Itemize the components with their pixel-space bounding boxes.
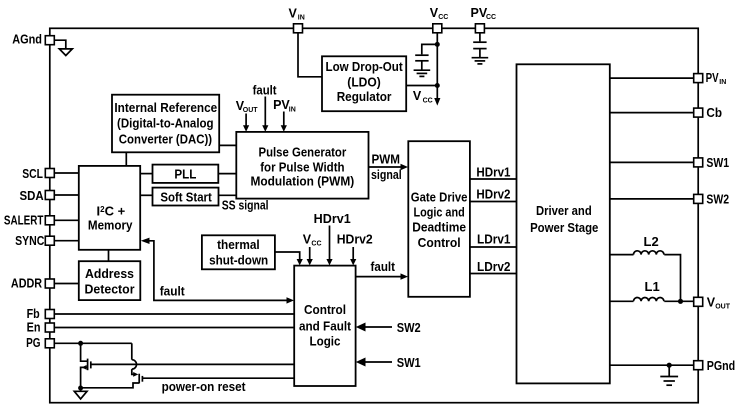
svg-text:IN: IN: [719, 79, 726, 86]
wire Driver to Cb pin: [610, 112, 694, 114]
pin En: [45, 323, 54, 332]
transistor Q2: [131, 343, 133, 359]
box internal reference DAC: [112, 95, 219, 153]
svg-text:Power Stage: Power Stage: [530, 220, 598, 235]
svg-text:Modulation (PWM): Modulation (PWM): [251, 174, 355, 189]
box PLL: [153, 165, 219, 183]
wire Q2 gate power-on reset to Control: [142, 377, 294, 379]
svg-text:V: V: [413, 89, 422, 103]
ground at PGnd: [668, 365, 670, 376]
node ground junction Q1: [78, 386, 83, 391]
wire I2C to Soft Start: [140, 194, 152, 196]
svg-text:signal: signal: [371, 168, 402, 182]
svg-text:IN: IN: [289, 106, 296, 113]
svg-text:CC: CC: [438, 14, 448, 21]
node PGnd ground junction: [667, 363, 672, 368]
box LDO regulator: [322, 56, 406, 111]
ground for PVcc capacitor: [472, 57, 489, 59]
arrow fault into Pulse Generator top: [264, 97, 266, 126]
arrow SW2 into Control right: [364, 326, 392, 328]
wire ADDR to Address Detector: [55, 283, 79, 285]
svg-text:SDA: SDA: [20, 189, 44, 203]
svg-text:power-on reset: power-on reset: [162, 380, 247, 394]
svg-text:PV: PV: [706, 71, 720, 85]
svg-text:fault: fault: [253, 83, 278, 97]
svg-text:Logic: Logic: [310, 333, 341, 348]
svg-text:Logic and: Logic and: [414, 205, 465, 220]
inductor L1: [610, 300, 634, 302]
wire I2C to PLL: [140, 173, 152, 175]
svg-text:L1: L1: [645, 279, 660, 294]
svg-text:Cb: Cb: [706, 106, 722, 120]
svg-text:Pulse Generator: Pulse Generator: [259, 145, 347, 160]
ground below Q1: [80, 388, 82, 391]
svg-text:Internal Reference: Internal Reference: [114, 100, 217, 115]
svg-text:Soft Start: Soft Start: [160, 189, 212, 204]
wire Q1 gate to Control: [91, 363, 294, 365]
svg-text:AGnd: AGnd: [12, 33, 42, 47]
svg-text:PWM: PWM: [372, 152, 401, 166]
wire fault Control to Gate Drive: [356, 276, 402, 278]
wire DAC to Pulse Generator: [219, 144, 236, 146]
wire SDA to I2C: [55, 194, 79, 196]
svg-text:ADDR: ADDR: [11, 276, 42, 290]
wire PLL to Pulse Generator: [218, 173, 236, 175]
wire En to Control: [55, 327, 295, 329]
svg-text:Fb: Fb: [27, 307, 40, 321]
wire fault net to I2C and Control: [149, 241, 288, 301]
capacitor on Vcc: [422, 44, 438, 54]
box Control and Fault Logic: [294, 266, 355, 386]
node Vcc junction upper: [435, 42, 440, 47]
box Soft Start: [153, 188, 219, 206]
wire Vcc vertical with down arrow: [436, 33, 438, 99]
ground symbol at AGnd: [55, 40, 66, 49]
svg-text:V: V: [289, 6, 298, 20]
svg-text:SW2: SW2: [706, 193, 729, 207]
svg-text:Regulator: Regulator: [337, 89, 392, 104]
pin Cb: [694, 108, 703, 117]
box Pulse Generator PWM: [236, 132, 368, 199]
svg-text:SCL: SCL: [22, 167, 43, 181]
box Address Detector: [79, 261, 141, 300]
wire Driver to PVin pin: [610, 77, 694, 79]
svg-text:(LDO): (LDO): [347, 74, 381, 89]
node PG junction: [78, 341, 83, 346]
pin PV_CC: [475, 24, 484, 33]
wire LDrv2 Gate Drive to Driver: [470, 273, 517, 275]
arrow HDrv1 into Control top: [329, 226, 331, 260]
svg-text:shut-down: shut-down: [209, 253, 268, 268]
wire Driver to SW1 pin: [610, 161, 694, 163]
inductor L2: [610, 254, 634, 256]
wire LDrv1 Gate Drive to Driver: [470, 246, 517, 248]
wire PWM signal Pulse Generator to Gate Drive: [369, 166, 402, 168]
svg-text:SW2: SW2: [397, 321, 421, 335]
svg-text:Gate Drive: Gate Drive: [411, 190, 468, 205]
svg-text:Address: Address: [85, 266, 134, 281]
svg-text:thermal: thermal: [217, 237, 260, 252]
svg-text:PGnd: PGnd: [707, 359, 736, 373]
pin SCL: [45, 169, 54, 178]
wire Soft Start to Pulse Generator (SS signal): [219, 194, 237, 196]
svg-text:Low Drop-Out: Low Drop-Out: [326, 59, 404, 74]
svg-text:Deadtime: Deadtime: [412, 220, 466, 235]
svg-text:and Fault: and Fault: [299, 319, 352, 334]
svg-text:Memory: Memory: [88, 218, 133, 233]
wire I2C box to Address Detector: [108, 250, 110, 261]
svg-text:OUT: OUT: [715, 304, 731, 311]
pin SALERT: [45, 216, 54, 225]
pin PGnd: [694, 361, 703, 370]
capacitor on PVcc: [479, 33, 481, 42]
pin AGnd: [45, 36, 54, 45]
svg-text:SS signal: SS signal: [222, 199, 269, 213]
wire HDrv2 Gate Drive to Driver: [470, 201, 517, 203]
arrow Vout into Pulse Generator top: [245, 114, 247, 126]
svg-text:PG: PG: [26, 336, 40, 350]
svg-text:L2: L2: [644, 234, 659, 249]
svg-text:LDrv2: LDrv2: [477, 260, 511, 274]
pin V_IN: [294, 24, 303, 33]
wire Fb to Control: [55, 313, 295, 315]
pin ADDR: [45, 279, 54, 288]
svg-text:SW1: SW1: [706, 156, 729, 170]
pin SW1 right: [694, 158, 703, 167]
svg-text:HDrv2: HDrv2: [337, 232, 373, 246]
svg-text:OUT: OUT: [243, 107, 258, 114]
svg-text:HDrv1: HDrv1: [314, 212, 351, 226]
svg-text:HDrv2: HDrv2: [476, 188, 510, 202]
svg-text:LDrv1: LDrv1: [477, 233, 511, 247]
svg-text:for Pulse Width: for Pulse Width: [260, 159, 344, 174]
svg-text:PLL: PLL: [174, 166, 196, 181]
box Gate Drive Logic and Deadtime Control: [408, 141, 470, 297]
wire PG to transistor branch: [55, 342, 132, 344]
pin V_CC: [433, 24, 442, 33]
pin PV_IN right: [694, 74, 703, 83]
wire SYNC to I2C: [55, 240, 79, 242]
svg-text:fault: fault: [160, 285, 186, 299]
svg-text:Control: Control: [418, 235, 461, 250]
chip boundary frame: [50, 28, 698, 402]
ground for Vcc capacitor: [414, 69, 431, 71]
wire HDrv1 Gate Drive to Driver: [470, 178, 517, 180]
svg-text:(Digital-to-Analog: (Digital-to-Analog: [117, 116, 214, 131]
wire SCL to I2C: [55, 172, 79, 174]
box Driver and Power Stage: [517, 64, 610, 383]
svg-text:SW1: SW1: [397, 356, 421, 370]
wire Driver to SW2 pin: [610, 198, 694, 200]
wire LDO output to Vcc node: [406, 85, 437, 87]
svg-text:SALERT: SALERT: [4, 214, 44, 228]
box I2C + Memory: [79, 166, 140, 250]
pin SYNC: [45, 236, 54, 245]
wire DAC box to I2C box: [125, 152, 127, 166]
arrow Vcc into Control top: [309, 247, 311, 260]
pin SDA: [45, 191, 54, 200]
pin PG: [45, 339, 54, 348]
wire Driver to PGnd pin: [610, 364, 694, 366]
arrow PVin into Pulse Generator top: [283, 112, 285, 126]
svg-text:fault: fault: [371, 260, 396, 274]
pin V_OUT right: [694, 297, 703, 306]
node L1 L2 junction: [678, 299, 683, 304]
svg-text:Driver and: Driver and: [536, 203, 592, 218]
arrow SW1 into Control right: [364, 361, 392, 363]
svg-text:CC: CC: [486, 14, 496, 21]
arrow HDrv2 into Control top: [352, 247, 354, 260]
node Vcc junction lower: [435, 83, 440, 88]
wire V_IN drop to LDO: [298, 33, 322, 77]
svg-text:CC: CC: [423, 97, 433, 104]
transistor Q1: [81, 343, 87, 361]
svg-text:SYNC: SYNC: [15, 234, 44, 248]
svg-text:En: En: [27, 321, 41, 335]
svg-text:CC: CC: [311, 240, 321, 247]
pin SW2 right: [694, 194, 703, 203]
svg-text:HDrv1: HDrv1: [476, 165, 510, 179]
wire SALERT to I2C: [55, 219, 79, 221]
svg-text:Control: Control: [304, 302, 346, 317]
pin Fb: [45, 310, 54, 319]
svg-text:Converter (DAC)): Converter (DAC)): [119, 132, 212, 147]
box thermal shut-down: [202, 235, 275, 269]
wire thermal shut-down to Control: [275, 252, 300, 260]
svg-text:Detector: Detector: [85, 282, 135, 297]
svg-text:IN: IN: [298, 14, 305, 21]
